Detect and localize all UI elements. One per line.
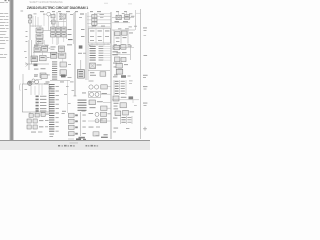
- svg-text:SAFETY & ROAD TRAVELING: SAFETY & ROAD TRAVELING: [30, 1, 63, 4]
- svg-text:ZW310 ELECTRIC CIRCUIT DIAGRAM: ZW310 ELECTRIC CIRCUIT DIAGRAM 1: [27, 6, 88, 10]
